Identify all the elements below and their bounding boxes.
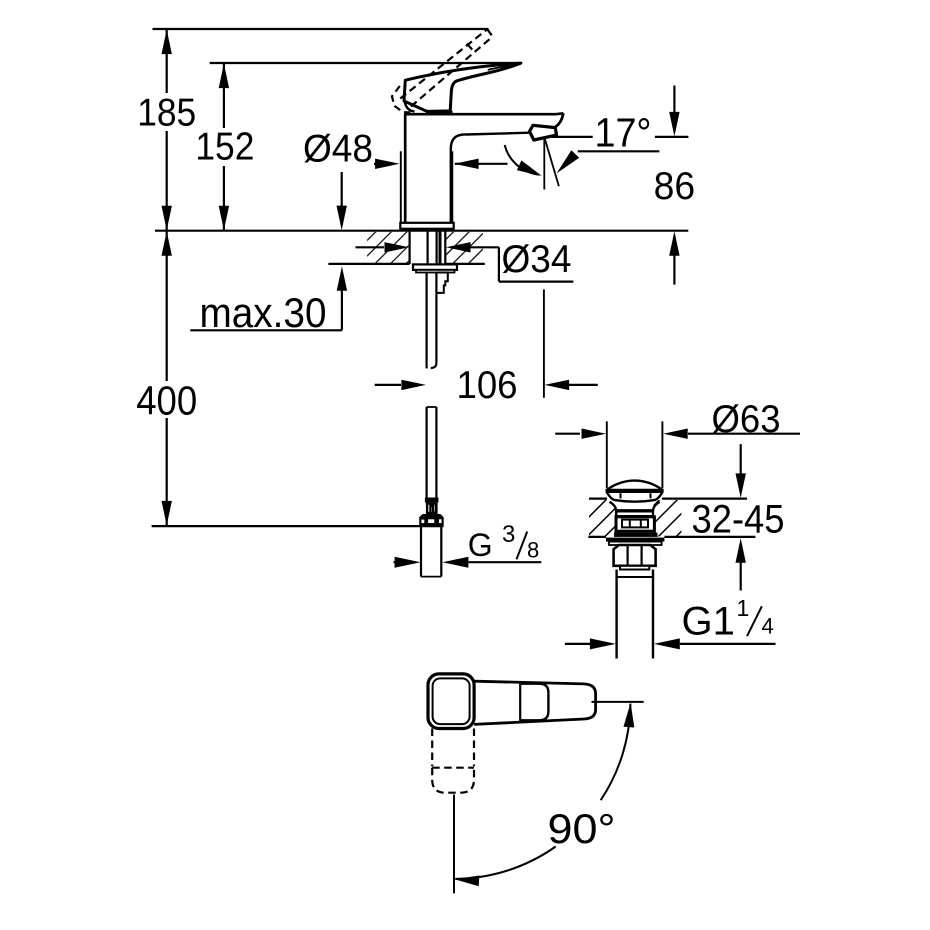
drain counter underside line [588, 536, 606, 538]
drain relief ring [620, 566, 649, 570]
dashed rotated handle end [432, 768, 474, 793]
hose ferrule [425, 498, 439, 503]
svg-text:4: 4 [762, 614, 774, 639]
86 lower leg with up arrow [669, 231, 679, 256]
counter hatch left of faucet [367, 232, 410, 263]
32-45 lower leg with up arrow [736, 538, 746, 563]
top view cap outer [428, 674, 474, 729]
svg-text:Ø34: Ø34 [502, 238, 572, 281]
drain nut [614, 545, 656, 566]
counter underside line [328, 263, 409, 265]
svg-text:8: 8 [527, 538, 539, 563]
Ø48 left arrow [374, 163, 378, 165]
svg-text:400: 400 [136, 377, 197, 423]
top view cap inner [433, 678, 470, 724]
drain counter hatch [589, 500, 616, 536]
faucet spout front face [553, 113, 564, 128]
106 left arrow [375, 384, 401, 386]
dashed handle cross tick [467, 44, 473, 51]
handle heel arc [405, 101, 415, 111]
mounting flange [413, 264, 457, 270]
G1 1/4 right arrow [654, 638, 680, 649]
angle arc [505, 145, 539, 175]
G1 1/4 left arrow [565, 643, 590, 645]
svg-text:3: 3 [502, 521, 515, 548]
drain dome cap [607, 481, 663, 502]
faucet body top edge [405, 112, 563, 116]
86 upper leg with down arrow [673, 86, 675, 114]
handle-body contact line [426, 111, 453, 114]
hose thread section [426, 503, 438, 514]
Ø63 right arrow [663, 429, 688, 439]
G3/8 left arrow [394, 561, 398, 563]
dimension 152 line [223, 63, 225, 128]
faucet spout inner curve [451, 134, 466, 223]
svg-text:G1: G1 [682, 600, 735, 644]
dashed raised handle base [392, 86, 411, 112]
faucet body left edge [404, 113, 407, 223]
dashed rotated handle sides [431, 729, 433, 767]
faucet base plate [400, 223, 453, 229]
spout tilted ray 17deg [545, 138, 559, 186]
angle arc arrowhead [517, 160, 542, 176]
aerator nozzle [530, 125, 557, 140]
faucet spout underside [466, 133, 530, 135]
G3/8 right arrow [442, 557, 468, 568]
max.30 underline [190, 329, 342, 331]
106 extension line [543, 289, 545, 397]
top view section line [519, 683, 521, 722]
Ø48 right arrow [455, 163, 508, 165]
svg-text:Ø48: Ø48 [303, 128, 373, 171]
svg-text:185: 185 [137, 92, 196, 135]
svg-text:1: 1 [737, 595, 750, 621]
svg-text:G: G [468, 527, 493, 563]
connector tube [420, 526, 422, 577]
drain extension lines [606, 421, 608, 488]
dashed raised handle lever [400, 29, 487, 98]
106 right arrow [568, 384, 598, 386]
max.30 leader with up arrow [341, 290, 343, 330]
extension lines Ø48 [400, 151, 402, 224]
extension line at handle max height (185 ref) [153, 28, 489, 30]
top view lever outline [474, 681, 595, 724]
svg-text:106: 106 [457, 364, 518, 407]
17deg underline segments [552, 136, 593, 138]
countertop surface line (faucet) [155, 230, 688, 232]
17deg leader with arrow [578, 150, 660, 152]
drain pipe [615, 570, 617, 659]
extension line at lever tip height (152 ref) [210, 62, 522, 64]
lower reference line (hose end, 400 ref) [152, 525, 444, 527]
90deg arc [601, 704, 631, 800]
drain flange bar [614, 533, 658, 537]
hose nipple steps [438, 273, 448, 293]
drain lock flange [606, 538, 664, 542]
svg-text:32-45: 32-45 [692, 498, 785, 542]
90deg horizontal ray [592, 701, 644, 703]
solid lever handle [404, 63, 521, 111]
dashed rotated handle tick [432, 767, 474, 769]
drain counter surface line [589, 498, 607, 500]
Ø63 left arrow [555, 433, 580, 435]
mounting hole sides [409, 231, 411, 264]
hole left arrow [356, 246, 385, 248]
drain body box [616, 517, 654, 531]
counter hatch right of faucet [445, 232, 483, 263]
svg-text:17°: 17° [595, 110, 652, 156]
90deg arc top arrowhead [624, 703, 635, 728]
Ø48 vertical leader with down arrow [341, 172, 343, 207]
svg-text:max.30: max.30 [200, 289, 327, 336]
svg-text:Ø63: Ø63 [712, 398, 781, 441]
hole right arrow / Ø34 leader [446, 242, 471, 252]
90deg vertical ray [453, 795, 455, 894]
lever tip inner line [488, 65, 517, 70]
svg-text:90°: 90° [548, 805, 616, 852]
flexible hose [426, 407, 428, 498]
dimension 185 line [166, 29, 168, 93]
G3/8 connector nut [419, 514, 444, 525]
dimension 400 line [166, 231, 168, 381]
spout vertical ray [543, 138, 545, 190]
90deg arc bottom arrowhead [455, 876, 480, 887]
drain neck [610, 502, 617, 517]
svg-text:86: 86 [654, 165, 696, 208]
threaded rod [426, 273, 428, 369]
svg-text:152: 152 [195, 126, 254, 169]
top view inner detail [520, 684, 548, 721]
32-45 upper leg with down arrow [740, 444, 742, 474]
